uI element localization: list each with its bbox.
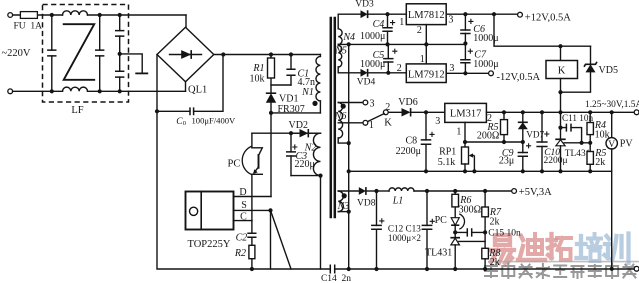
switch K pole 2: [383, 110, 388, 115]
bulk capacitor C0 100uF/400V: [157, 55, 223, 112]
svg-text:N1: N1: [301, 87, 314, 98]
wire emitter: [251, 174, 253, 220]
wire bottom in LF: [43, 90, 63, 92]
fuse FU 1A: [13, 14, 43, 16]
switch blade: [368, 114, 384, 122]
svg-text:1000μ: 1000μ: [473, 59, 498, 70]
winding N6: [338, 102, 363, 104]
svg-text:C14 2n: C14 2n: [321, 274, 351, 283]
capacitor C9 23u: [522, 142, 524, 171]
svg-text:TOP225Y: TOP225Y: [188, 239, 231, 250]
AC input terminal N: [8, 89, 13, 94]
regulator U LM7812: [406, 4, 446, 25]
svg-text:+12V,0.5A: +12V,0.5A: [525, 13, 571, 24]
svg-text:VD6: VD6: [398, 97, 417, 108]
capacitor C14 2n: [330, 265, 334, 274]
capacitor C6 1000u: [464, 14, 466, 43]
svg-text:0: 0: [183, 120, 186, 127]
capacitor C12 1000u: [376, 191, 378, 269]
svg-text:C: C: [240, 211, 247, 222]
wire +5V rail: [414, 190, 512, 192]
wire +12V out: [446, 13, 517, 15]
watermark: [485, 234, 639, 279]
X-capacitor 1: [51, 15, 53, 91]
diode VD2: [291, 132, 321, 134]
capacitor C10 2200u: [541, 112, 543, 171]
zener diode VD5: [590, 46, 592, 64]
svg-text:QL1: QL1: [188, 84, 207, 95]
svg-text:LF: LF: [71, 105, 83, 116]
svg-text:VD2: VD2: [289, 120, 308, 131]
svg-text:2k: 2k: [595, 157, 605, 168]
svg-text:N6: N6: [334, 111, 347, 122]
diode VD3: [338, 13, 406, 15]
clamp node wire: [271, 85, 291, 93]
svg-text:RP1: RP1: [439, 147, 456, 158]
line filter box LF: [43, 5, 129, 103]
svg-text:LM7912: LM7912: [408, 70, 445, 81]
svg-text:FU 1A: FU 1A: [13, 22, 42, 32]
svg-text:C15 10n: C15 10n: [488, 229, 521, 239]
diode VD7: [522, 112, 524, 122]
bridge rectifier QL1: [157, 27, 214, 82]
ground: [120, 54, 143, 73]
capacitor C5 1000u: [387, 44, 389, 72]
svg-text:2200μ: 2200μ: [396, 146, 421, 157]
wire N1 bottom: [271, 112, 320, 114]
resistor R7 2k: [484, 191, 486, 232]
resistor R5 200: [503, 112, 505, 142]
capacitor C1 4.7n: [290, 55, 292, 86]
svg-text:1: 1: [420, 54, 425, 65]
svg-text:10k: 10k: [250, 74, 265, 85]
svg-text:PC: PC: [228, 159, 241, 170]
wire to LM317 in: [426, 111, 445, 113]
AC input terminal L: [8, 13, 13, 18]
choke bottom winding: [63, 87, 88, 91]
capacitor C3 220u: [290, 133, 292, 175]
svg-text:N4: N4: [342, 32, 355, 43]
optocoupler LED PC: [451, 218, 459, 226]
diode VD8: [359, 187, 366, 195]
svg-text:+5V,3A: +5V,3A: [519, 187, 552, 198]
capacitor C15 10n: [453, 230, 457, 234]
regulator U LM317: [445, 103, 487, 122]
switch K terminal 3: [363, 100, 368, 105]
wire secondary common: [348, 44, 350, 269]
svg-text:200Ω: 200Ω: [477, 131, 499, 142]
svg-text:100μF/400V: 100μF/400V: [192, 116, 237, 126]
pin D: [234, 196, 272, 198]
svg-text:C11 10n: C11 10n: [562, 113, 593, 123]
wire +12V branch to relay: [494, 14, 591, 46]
svg-text:PV: PV: [620, 139, 634, 150]
svg-text:L1: L1: [392, 195, 404, 206]
svg-text:2: 2: [385, 102, 390, 113]
choke top winding: [63, 11, 88, 15]
svg-text:C4: C4: [373, 19, 385, 30]
svg-text:3: 3: [370, 98, 375, 109]
TOP225Y chip: [186, 192, 234, 230]
resistor R6 300: [454, 191, 456, 218]
svg-text:VD4: VD4: [357, 78, 376, 88]
svg-text:2: 2: [417, 25, 422, 36]
winding N1: [319, 55, 321, 113]
winding N4: [337, 14, 339, 29]
diode VD6: [388, 111, 426, 113]
svg-text:5.1k: 5.1k: [438, 157, 456, 168]
wire PV to ground rail: [611, 149, 613, 269]
inductor L1: [377, 190, 390, 192]
shunt regulator TL431 5V: [454, 232, 456, 237]
svg-text:VD5: VD5: [599, 65, 618, 76]
svg-text:D: D: [239, 187, 246, 198]
svg-text:PC: PC: [435, 215, 448, 226]
wire S diagonal: [271, 210, 292, 269]
X-capacitor 2: [99, 15, 101, 91]
shunt regulator TL431: [560, 112, 562, 139]
svg-text:1.25~30V,1.5A: 1.25~30V,1.5A: [585, 100, 639, 110]
wire DC- down: [156, 55, 158, 112]
svg-text:C12 C13: C12 C13: [388, 223, 421, 233]
svg-text:300Ω: 300Ω: [459, 205, 481, 216]
wire secondary ground rail: [335, 268, 635, 270]
svg-text:1000μ: 1000μ: [473, 33, 498, 44]
svg-text:2k: 2k: [490, 217, 500, 228]
wire ground rail 12V: [338, 43, 465, 45]
resistor R8 2k: [484, 232, 486, 248]
svg-text:2k: 2k: [490, 257, 500, 268]
resistor R4 10k: [589, 112, 591, 143]
wire N2 bottom to rail: [320, 176, 322, 269]
capacitor C2: [251, 221, 253, 246]
wire output rail 30V: [486, 111, 634, 113]
svg-text:VD8: VD8: [357, 198, 376, 208]
svg-text:VD3: VD3: [355, 0, 374, 9]
wire collector node: [252, 132, 321, 134]
potentiometer RP1 5.1k: [462, 147, 469, 164]
capacitor C4 1000u: [387, 14, 389, 44]
svg-text:N5: N5: [334, 45, 347, 56]
wire DC+ rail: [214, 54, 321, 56]
capacitor C8 2200u: [425, 112, 427, 171]
winding N3: [338, 190, 359, 192]
svg-text:S: S: [241, 200, 247, 211]
svg-text:R2: R2: [234, 248, 246, 259]
svg-text:TL431: TL431: [425, 248, 452, 259]
resistor R1 10k: [270, 55, 272, 86]
wire bridge bottom to AC: [185, 82, 187, 92]
wire relay to output rail: [560, 92, 562, 112]
diode VD4: [361, 69, 368, 77]
winding N2: [291, 175, 321, 177]
svg-text:R1: R1: [252, 63, 264, 74]
wire LM317 ground rail: [349, 170, 612, 172]
svg-text:1: 1: [399, 17, 404, 28]
svg-text:220μ: 220μ: [295, 159, 315, 170]
voltmeter PV: [611, 112, 613, 137]
capacitor C11 10n: [561, 128, 582, 143]
pin S: [234, 209, 271, 211]
wire TL431 ref: [564, 142, 590, 144]
wire ADJ: [464, 122, 466, 147]
svg-text:23μ: 23μ: [499, 156, 514, 167]
svg-text:3: 3: [449, 63, 454, 74]
wire N6 tap: [338, 122, 363, 124]
svg-text:LM317: LM317: [450, 109, 482, 120]
wire TL431 ref 5V: [459, 240, 485, 242]
resistor R2: [249, 245, 255, 258]
capacitor C13 1000u: [426, 191, 428, 269]
capacitor C7 1000u: [464, 44, 466, 74]
diode VD1 FR307: [266, 93, 276, 103]
transformer core: [331, 18, 335, 217]
svg-text:C8: C8: [406, 135, 418, 146]
svg-text:N2: N2: [304, 143, 317, 154]
wire bridge top: [185, 15, 187, 27]
wire -12V out: [446, 72, 488, 74]
switch K terminal 1: [363, 120, 368, 125]
wire primary ground: [157, 111, 330, 269]
svg-text:-12V,0.5A: -12V,0.5A: [497, 72, 541, 83]
svg-text:1000μ: 1000μ: [360, 31, 385, 42]
svg-text:3: 3: [435, 116, 440, 127]
svg-text:K: K: [384, 117, 392, 128]
regulator U LM7912: [406, 64, 446, 83]
pin C: [234, 220, 252, 222]
wire S to ground: [268, 208, 272, 212]
Y-capacitor lower: [119, 54, 121, 91]
svg-text:1000μ: 1000μ: [360, 59, 385, 70]
relay K: [560, 46, 562, 60]
pin2 wire: [425, 25, 427, 64]
svg-text:1: 1: [369, 120, 374, 131]
svg-text:K: K: [558, 65, 566, 76]
svg-text:~220V: ~220V: [2, 48, 31, 59]
winding N5: [338, 46, 342, 68]
optocoupler phototransistor PC: [242, 146, 252, 175]
resistor R5 2k: [589, 143, 591, 172]
wire top in LF: [43, 14, 63, 16]
choke core Z: [64, 24, 94, 80]
svg-text:3: 3: [448, 15, 453, 26]
svg-text:1000μ×2: 1000μ×2: [388, 233, 421, 243]
svg-text:LM7812: LM7812: [408, 10, 445, 21]
Y-capacitor upper: [119, 15, 121, 54]
svg-text:2: 2: [397, 63, 402, 74]
svg-text:C2: C2: [236, 232, 248, 243]
svg-text:1: 1: [456, 126, 461, 137]
